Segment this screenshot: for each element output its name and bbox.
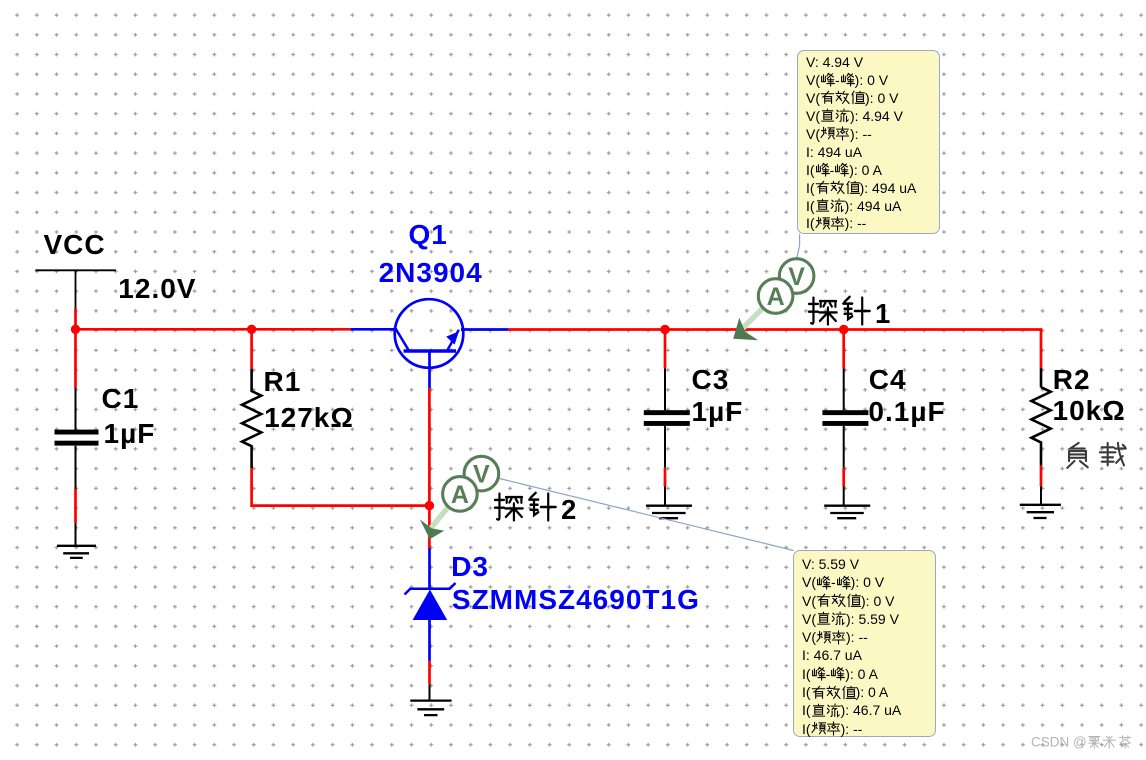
wire: blue segment right of Q1 <box>461 328 508 331</box>
wire: main bus red left segment (VCC node to Q1) <box>76 328 351 331</box>
label C1 <box>102 385 140 413</box>
junction node: Q1 base / R1 / D3 <box>425 501 434 510</box>
wire: C3 to ground red segment <box>664 468 667 487</box>
wire: C4 top red lead <box>842 330 845 369</box>
load label (fu-zai) <box>1063 441 1127 476</box>
value label 12.0V <box>118 275 196 303</box>
wire: D3 to ground red segment <box>428 661 431 685</box>
probe 2 arrow shaft <box>431 501 454 529</box>
probe 1 arrow head <box>733 318 758 340</box>
junction node: C3 / bus <box>660 325 669 334</box>
label D3 <box>451 553 489 581</box>
value label 0.1uF (C4) <box>868 398 945 426</box>
transistor Q1 (2N3904) <box>395 299 464 388</box>
probe 1 name label (tan-zhen-1) <box>807 294 891 333</box>
probe 1 V circle <box>779 259 814 294</box>
label Q1 <box>409 221 448 249</box>
value label 127k (R1) <box>264 404 354 432</box>
ground (D3) <box>410 701 451 716</box>
watermark <box>1031 735 1132 750</box>
value label 1uF (C1) <box>104 420 156 448</box>
measurement box 2 (probe 2 readings) <box>793 550 936 737</box>
wire: R1 top red lead <box>250 329 253 369</box>
ground (C3) <box>646 506 692 519</box>
VCC power symbol <box>35 270 116 308</box>
label VCC <box>44 231 106 259</box>
resistor R2 <box>1031 368 1050 465</box>
label R1 <box>264 368 302 396</box>
probe 1 arrow shaft <box>742 303 769 330</box>
ground (C1) <box>57 546 96 558</box>
capacitor C1 <box>55 388 99 489</box>
probe 2 arrow head <box>420 519 444 539</box>
junction node: VCC / bus <box>71 325 80 334</box>
wire: C3 top red lead <box>664 330 667 369</box>
measurement box 1 (probe 1 readings) <box>797 50 940 234</box>
capacitor C3 <box>644 368 690 467</box>
label C3 <box>692 366 730 394</box>
label C4 <box>869 366 907 394</box>
probe 2 V circle <box>464 456 499 491</box>
callout line from probe 1 to measurement box 1 <box>797 234 800 258</box>
value label 1uF (C3) <box>692 398 744 426</box>
zener diode D3 (SZMMSZ4690T1G) <box>405 548 456 661</box>
wire: R2 to ground red segment <box>1040 466 1043 487</box>
wire: node to D3 red segment <box>428 506 431 548</box>
value label SZMMSZ4690T1G <box>452 586 700 614</box>
wire: C1 to ground red segment <box>74 489 77 523</box>
wire: main bus red right segment (Q1 to R2 corner) <box>508 330 1041 369</box>
probe 1 A circle <box>758 279 793 314</box>
resistor R1 <box>242 369 261 468</box>
junction node: R1 / bus <box>247 325 256 334</box>
value label 2N3904 <box>379 259 483 287</box>
junction node: C4 / bus <box>839 325 848 334</box>
probe 2 name label (tan-zhen-2) <box>493 490 577 529</box>
callout line from probe 2 to measurement box 2 <box>500 479 794 551</box>
wire: VCC lead red to bus <box>74 309 77 389</box>
wire: R1 bottom red wire to Q1 base node <box>252 468 430 506</box>
wire: blue segment left of Q1 <box>351 328 397 331</box>
ground (C4) <box>824 506 870 519</box>
ground (R2) <box>1020 505 1061 518</box>
value label 10k (R2) <box>1053 397 1126 425</box>
svg-text:A: A <box>767 283 785 311</box>
label R2 <box>1053 366 1091 394</box>
capacitor C4 <box>822 368 868 467</box>
wire: C4 to ground red segment <box>842 468 845 487</box>
probe 2 A circle <box>443 477 478 512</box>
svg-text:A: A <box>451 481 469 509</box>
wire: Q1 base red wire down to node <box>428 388 431 506</box>
